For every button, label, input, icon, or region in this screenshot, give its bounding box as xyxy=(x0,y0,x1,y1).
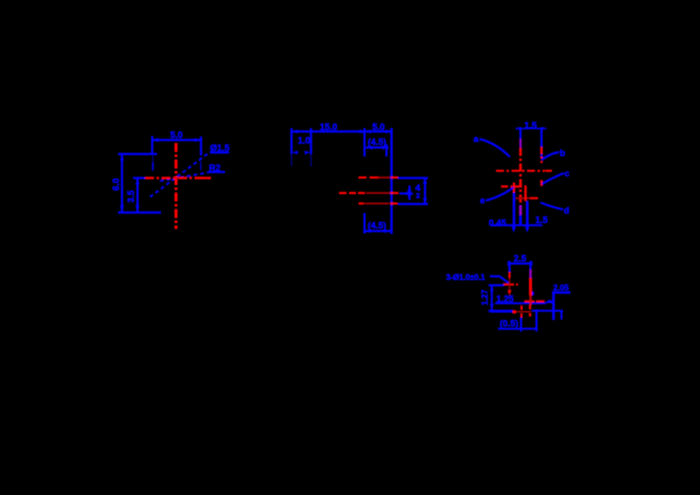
ext vert left faint xyxy=(291,154,293,166)
cross1 red vertical top xyxy=(508,272,510,278)
svg-text:1.5: 1.5 xyxy=(524,121,537,131)
outline right edge dash xyxy=(200,163,202,170)
cross1 red vertical thin xyxy=(509,278,511,291)
centerline horizontal red xyxy=(145,177,206,179)
svg-text:(0.5): (0.5) xyxy=(500,319,519,329)
body front edge lower xyxy=(363,213,365,234)
svg-text:1.5: 1.5 xyxy=(535,215,548,225)
svg-text:1.27: 1.27 xyxy=(480,289,489,305)
red square pad xyxy=(513,310,516,313)
svg-text:(4.5): (4.5) xyxy=(368,137,387,147)
cross2 red horizontal xyxy=(524,300,544,302)
bottom dim down arrow col3 xyxy=(525,227,529,233)
top dim bar xyxy=(516,128,547,130)
overlap purple left xyxy=(520,139,522,148)
left vert top xyxy=(508,261,510,272)
dim 5.0 right line xyxy=(365,130,393,132)
pin2 ext blue xyxy=(400,192,414,194)
pin2 centerline xyxy=(339,192,365,194)
small dim arrows at lead tip xyxy=(292,151,298,155)
pin3 ext blue xyxy=(398,203,428,205)
outline left edge bright dash xyxy=(152,163,154,171)
red horizontal third xyxy=(516,197,530,199)
cross2 red vertical lower xyxy=(529,296,531,307)
svg-text:0.45: 0.45 xyxy=(489,218,507,228)
left bracket arrows xyxy=(490,286,494,292)
dim (4.5) top line xyxy=(366,146,389,148)
red vertical col3 xyxy=(524,186,526,201)
leader b xyxy=(542,152,560,160)
svg-text:5.0: 5.0 xyxy=(170,130,183,140)
outline faint right edge xyxy=(200,157,202,163)
bottom dim arrows xyxy=(365,229,371,233)
cross1 red horizontal xyxy=(503,283,518,285)
mid horizontal line xyxy=(495,302,546,304)
svg-text:(4.5): (4.5) xyxy=(368,221,387,231)
svg-text:5.0: 5.0 xyxy=(372,122,385,132)
pin1 ext blue xyxy=(398,177,428,179)
svg-text:6.0: 6.0 xyxy=(111,178,121,191)
bottom dim down arrow col1 xyxy=(513,225,515,229)
mid connector right xyxy=(546,301,554,303)
inner dim line pins xyxy=(408,186,410,201)
svg-text:2.5: 2.5 xyxy=(514,254,527,264)
pin3 centerline xyxy=(359,202,365,204)
bottom col vertical right xyxy=(535,309,537,331)
right dim column xyxy=(424,178,426,204)
ext mid horizontal xyxy=(133,177,145,179)
pin1 centerline xyxy=(359,176,380,178)
ext top-left horizontal xyxy=(118,153,157,155)
label Ø1.5 underline xyxy=(210,151,229,153)
svg-text:2: 2 xyxy=(416,191,420,200)
left bracket bottom serif xyxy=(488,310,513,312)
right vert top xyxy=(529,261,531,270)
top dim bar xyxy=(509,262,531,264)
svg-text:Ø1.5: Ø1.5 xyxy=(210,143,230,153)
body back edge (right) xyxy=(390,128,392,234)
blue col1 xyxy=(513,193,516,227)
bottom row: blue horizontal left xyxy=(490,311,513,313)
right bracket arrow bump xyxy=(549,299,554,303)
red vertical right dashes xyxy=(540,147,542,186)
svg-text:3.5: 3.5 xyxy=(126,190,136,203)
red vertical centerline main xyxy=(519,148,522,205)
pin1 hidden shank xyxy=(378,177,390,179)
lead left edge xyxy=(519,129,521,148)
red horizontal second xyxy=(501,185,527,187)
red thin line xyxy=(516,311,531,313)
top dim arrow left xyxy=(519,127,524,131)
svg-text:2.05: 2.05 xyxy=(553,284,569,293)
svg-text:1.0: 1.0 xyxy=(298,136,311,146)
shallow dashed leader xyxy=(160,173,208,182)
dim 5.0 arrow left xyxy=(153,138,159,142)
inner dim arrows xyxy=(408,186,412,192)
right text underline bar xyxy=(552,291,571,294)
leader e xyxy=(486,188,514,201)
red horizontal third bright xyxy=(530,197,538,199)
dim left inner line xyxy=(136,178,138,212)
dim 15.0 line xyxy=(292,130,365,132)
top dim arrows xyxy=(508,261,513,266)
svg-text:1.25: 1.25 xyxy=(496,294,514,304)
dim left outer line xyxy=(121,154,123,212)
right bracket vertical xyxy=(552,293,555,321)
ext bottom horizontal xyxy=(118,211,161,213)
blue col2 lower xyxy=(519,215,522,226)
purple col2 xyxy=(519,205,522,215)
bottom dim line xyxy=(498,328,536,330)
svg-text:c: c xyxy=(564,169,569,179)
ext vert left (lead tip) xyxy=(290,128,292,154)
dim left inner arrow top xyxy=(136,179,140,185)
red vertical col1 xyxy=(513,183,515,193)
bottom col vertical left xyxy=(520,318,522,332)
bottom dim line xyxy=(491,224,543,226)
svg-text:e: e xyxy=(480,196,485,206)
dim 5.0 line xyxy=(152,139,201,141)
centerline vertical red xyxy=(175,143,178,229)
dim 5.0 ext right xyxy=(200,137,202,156)
bottom row: blue horizontal right xyxy=(532,310,563,312)
right serif down xyxy=(561,311,563,320)
dim (4.5) top right ext xyxy=(385,144,387,157)
pin2 ext arrow xyxy=(407,191,413,195)
cross2 blue bits xyxy=(532,292,534,296)
bottom dim (4.5) line xyxy=(365,230,391,232)
dim left outer arrow top xyxy=(120,155,124,161)
cross3a red arrows xyxy=(520,306,522,318)
dim 5.0 ext left xyxy=(151,136,153,154)
svg-text:3-Ø1.0±0.1: 3-Ø1.0±0.1 xyxy=(446,273,486,282)
svg-text:d: d xyxy=(564,206,570,216)
leader c xyxy=(542,173,564,184)
diagonal dashed leader to lens xyxy=(150,152,210,197)
svg-text:15.0: 15.0 xyxy=(320,122,338,132)
svg-text:R2: R2 xyxy=(209,163,221,173)
ext vert small dim xyxy=(310,128,312,154)
leader d xyxy=(541,203,564,210)
pin3 dash right xyxy=(390,202,398,204)
dim left inner arrow bottom xyxy=(136,206,140,212)
left bracket dim line xyxy=(491,285,493,310)
cross1 red arrow down xyxy=(508,290,512,296)
dim (4.5) top arrows xyxy=(367,146,373,150)
top dim arrow right xyxy=(539,127,544,131)
pin3 hidden shank xyxy=(365,203,390,205)
dim 5.0 arrow right xyxy=(195,138,201,142)
outline faint left edge xyxy=(152,154,154,163)
cross3b red bits xyxy=(529,305,531,317)
svg-text:b: b xyxy=(560,148,566,158)
pin2 dash right xyxy=(391,192,399,194)
dim left outer arrow bottom xyxy=(120,206,124,212)
dim 5.0 right arrows xyxy=(365,130,371,134)
pin1 dash right xyxy=(391,176,398,178)
body front edge upper xyxy=(363,128,365,157)
dim 15.0 arrow left xyxy=(292,130,298,134)
ext vert small dim faint xyxy=(310,154,312,167)
leader diagonal xyxy=(500,276,509,283)
lead right edge xyxy=(540,129,542,158)
right vert purple xyxy=(529,270,531,279)
label R2 underline xyxy=(208,171,225,173)
left bracket top serif xyxy=(489,284,505,286)
red horizontal main centerline xyxy=(496,170,545,172)
pin2 hidden shank xyxy=(366,192,390,194)
blue col3 xyxy=(526,201,529,226)
leader a xyxy=(480,139,511,157)
leader shelf xyxy=(490,275,500,277)
right vert red wide xyxy=(529,278,532,296)
dim 15.0 arrow right xyxy=(360,130,366,134)
